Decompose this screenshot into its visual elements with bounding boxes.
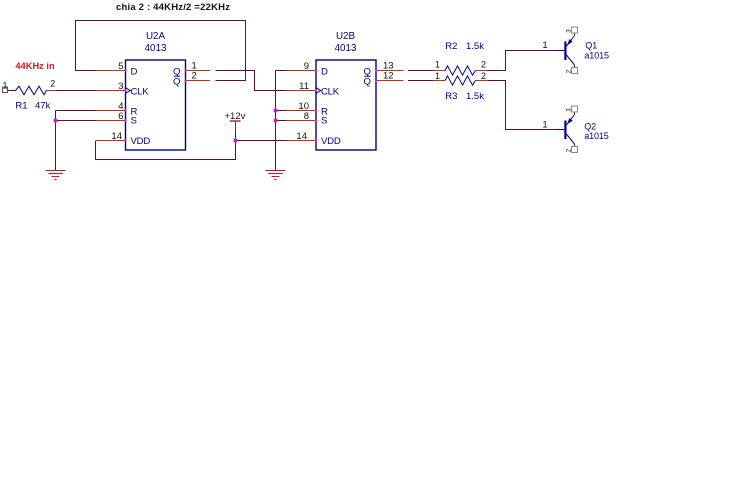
resistor R1 — [15, 79, 56, 112]
svg-text:D: D — [131, 67, 138, 78]
svg-text:4013: 4013 — [145, 43, 167, 54]
svg-text:2: 2 — [50, 79, 55, 89]
svg-text:1: 1 — [2, 81, 7, 91]
svg-text:1: 1 — [435, 59, 440, 69]
svg-text:CLK: CLK — [131, 87, 150, 98]
U2A pin 1 stub — [186, 70, 211, 72]
svg-text:2: 2 — [481, 59, 486, 69]
wire U2B D,R,S to ground — [276, 71, 287, 171]
svg-text:U2B: U2B — [336, 31, 356, 42]
U2A pin 14 stub — [96, 140, 126, 142]
svg-text:R1: R1 — [15, 101, 27, 112]
U2B pin numbers — [296, 61, 393, 142]
svg-text:2: 2 — [192, 71, 197, 82]
U2B pin 8 stub — [287, 120, 317, 122]
U2B pin 13 stub — [376, 70, 404, 72]
svg-text:9: 9 — [304, 61, 309, 72]
svg-text:R2: R2 — [445, 41, 457, 52]
junction dot U2A S ground — [54, 119, 58, 123]
U2A pin 6 stub — [96, 120, 126, 122]
svg-text:8: 8 — [304, 111, 309, 122]
svg-text:Q: Q — [173, 76, 180, 87]
U2B pin 14 stub — [287, 140, 317, 142]
port P1 input connector — [2, 81, 7, 93]
svg-text:2: 2 — [481, 71, 486, 81]
svg-text:11: 11 — [299, 81, 309, 92]
svg-text:47k: 47k — [35, 101, 51, 112]
U2B pin 12 stub — [376, 80, 404, 82]
svg-text:S: S — [321, 116, 327, 127]
svg-text:S: S — [131, 116, 137, 127]
transistor Q2 (a1015 PNP) — [542, 106, 608, 153]
svg-text:+12v: +12v — [225, 111, 246, 122]
junction dot +12v VDD — [234, 139, 238, 143]
svg-text:1.5k: 1.5k — [466, 91, 484, 102]
svg-text:6: 6 — [118, 111, 123, 122]
junction dot U2B R — [274, 109, 278, 113]
U2B pin connection ticks — [315, 70, 377, 142]
wire U2B Qbar pin12 to R3 — [408, 80, 433, 82]
wire U2A Q pin1 to U2B CLK — [216, 71, 287, 91]
ground (left) — [46, 170, 66, 180]
wire U2B Q pin13 to R2 — [408, 70, 433, 72]
U2A pin connection ticks — [125, 70, 187, 142]
transistor Q1 (a1015 PNP) — [542, 27, 609, 74]
wire U2A R,S to ground — [56, 111, 96, 171]
U2A pin 4 stub — [96, 110, 126, 112]
wire VDD net U2A to +12v to U2B — [96, 130, 287, 160]
ground (right) — [266, 170, 286, 180]
U2B pin 10 stub — [287, 110, 317, 112]
svg-text:1: 1 — [542, 40, 547, 51]
svg-text:14: 14 — [111, 131, 122, 142]
svg-text:3: 3 — [118, 81, 123, 92]
svg-text:Q: Q — [364, 76, 371, 87]
svg-text:1.5k: 1.5k — [466, 41, 484, 52]
svg-text:5: 5 — [118, 61, 123, 72]
svg-text:CLK: CLK — [321, 87, 340, 98]
svg-text:a1015: a1015 — [584, 131, 609, 141]
svg-text:U2A: U2A — [146, 31, 166, 42]
wire R1 to U2A CLK — [56, 90, 96, 92]
svg-text:chia 2 : 44KHz/2 =22KHz: chia 2 : 44KHz/2 =22KHz — [116, 2, 230, 13]
svg-text:1: 1 — [435, 71, 440, 81]
svg-text:Q1: Q1 — [585, 41, 597, 51]
svg-text:VDD: VDD — [321, 136, 341, 147]
svg-text:VDD: VDD — [131, 136, 151, 147]
svg-text:Q2: Q2 — [584, 121, 596, 131]
U2A pin 5 stub — [96, 70, 126, 72]
svg-text:44KHz in: 44KHz in — [15, 61, 55, 71]
flip-flop U2A (4013) box — [126, 31, 186, 150]
flip-flop U2B (4013) box — [316, 31, 376, 150]
svg-text:D: D — [321, 67, 328, 78]
U2A pin 3 stub — [96, 90, 126, 92]
resistor R3 — [433, 71, 488, 102]
wire R2 to Q1 base — [488, 51, 556, 71]
svg-text:1: 1 — [542, 120, 547, 131]
resistor R2 — [433, 41, 488, 75]
U2A pin numbers — [111, 61, 196, 142]
svg-text:R3: R3 — [445, 91, 457, 102]
U2A pin 2 stub — [186, 80, 211, 82]
svg-text:a1015: a1015 — [584, 50, 609, 60]
wire U2A feedback Qbar to D (top loop) — [76, 21, 246, 81]
power +12v — [225, 111, 246, 130]
junction dot U2B S — [274, 119, 278, 123]
svg-text:12: 12 — [383, 71, 394, 82]
wire input port to R1 — [8, 90, 16, 92]
svg-text:14: 14 — [296, 131, 307, 142]
wire R3 to Q2 base — [488, 81, 556, 130]
svg-text:4013: 4013 — [335, 43, 357, 54]
U2B pin 11 stub — [287, 90, 317, 92]
U2B pin 9 stub — [287, 70, 317, 72]
